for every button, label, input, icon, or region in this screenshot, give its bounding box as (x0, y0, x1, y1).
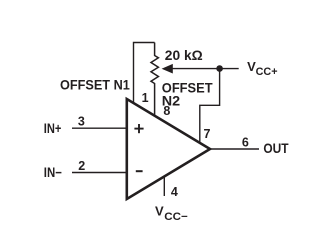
wire IN+ to pin 3 (72, 127, 127, 129)
label OFFSET N2 (162, 80, 213, 109)
svg-text:CC−: CC− (164, 211, 188, 223)
svg-text:2: 2 (78, 159, 85, 173)
svg-text:3: 3 (78, 115, 85, 129)
potentiometer wiper arrowhead (162, 64, 173, 74)
label VCC- (155, 203, 188, 222)
op-amp inverting input minus marker (136, 170, 143, 172)
potentiometer R1 20 kOhm body (151, 43, 158, 116)
svg-text:OFFSET N1: OFFSET N1 (60, 76, 130, 92)
svg-text:OUT: OUT (263, 141, 289, 156)
svg-text:8: 8 (163, 104, 170, 118)
wire IN- to pin 2 (72, 172, 127, 174)
svg-text:IN−: IN− (44, 165, 62, 180)
svg-text:1: 1 (142, 91, 149, 105)
junction dot node VCC+ (216, 65, 223, 72)
svg-text:CC+: CC+ (256, 66, 278, 78)
wire pin 4 VCC- (163, 177, 165, 197)
svg-text:6: 6 (242, 135, 249, 149)
svg-text:4: 4 (171, 185, 178, 199)
svg-text:IN+: IN+ (44, 121, 62, 136)
op-amp U1 (127, 99, 210, 199)
label VCC+ (247, 59, 277, 78)
wire pin 1 offset null loop (134, 43, 155, 104)
wire output pin 6 (210, 148, 259, 150)
svg-text:V: V (155, 203, 164, 218)
wire VCC+ node to pin 7 (200, 69, 220, 143)
svg-text:20 kΩ: 20 kΩ (165, 47, 203, 63)
wire wiper to VCC+ node (172, 68, 239, 70)
op-amp noninverting input plus marker (134, 124, 143, 133)
svg-text:7: 7 (204, 127, 211, 141)
